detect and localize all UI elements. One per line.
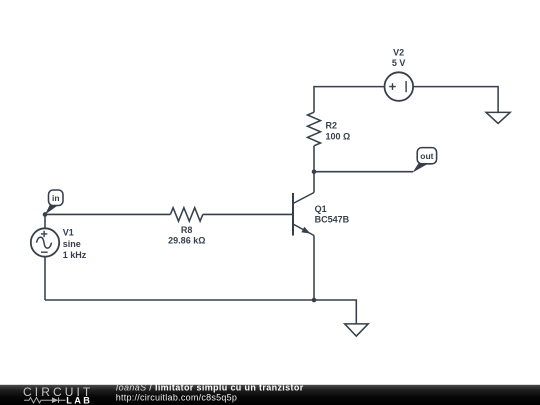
- resistor R8: [170, 208, 202, 221]
- wire rail to ground: [314, 300, 356, 324]
- out label tail: [413, 163, 428, 172]
- logo diode triangle: [52, 397, 59, 403]
- transistor Q1 emitter arrow: [301, 227, 310, 234]
- wire V1 bottom to rail: [44, 257, 46, 300]
- svg-text:http://circuitlab.com/c8s5q5p: http://circuitlab.com/c8s5q5p: [116, 393, 237, 403]
- V1 plus sign: [41, 231, 47, 237]
- svg-text:IoanaS / limitator simplu cu u: IoanaS / limitator simplu cu un tranzist…: [116, 382, 304, 392]
- wire collector up: [313, 172, 315, 193]
- wire collector node up to R2: [313, 146, 315, 172]
- in label box: [49, 190, 64, 206]
- node dot emitter rail: [312, 298, 317, 303]
- V1 sine wave: [37, 237, 52, 248]
- transistor Q1 collector diagonal: [293, 193, 314, 204]
- svg-text:LAB: LAB: [66, 395, 92, 405]
- node dot collector/out: [312, 169, 317, 174]
- V2 minus bar: [405, 81, 407, 92]
- wire collector node to out: [314, 171, 413, 173]
- transistor Q1 base bar: [292, 193, 294, 236]
- wire bottom rail: [45, 299, 314, 301]
- wire R2 top to corner and V2 left: [314, 87, 385, 113]
- wire R8 right to Q1 base: [203, 213, 293, 215]
- wire emitter down: [313, 236, 315, 301]
- voltage source V2 circle: [385, 72, 414, 101]
- V1 minus sign: [41, 251, 48, 253]
- ground bottom: [345, 324, 369, 336]
- wire in-node to R8 left: [45, 213, 170, 215]
- transistor Q1 emitter diagonal: [293, 224, 314, 236]
- wire in-node to V1 top: [44, 214, 46, 228]
- footer background: [0, 385, 540, 405]
- V2 plus sign: [389, 83, 396, 90]
- voltage source V1 circle: [31, 228, 59, 256]
- logo squiggle resistor-diode: [24, 397, 66, 403]
- in label tail: [45, 205, 58, 215]
- wire V2 right to ground corner: [413, 87, 498, 113]
- ground top right: [486, 112, 510, 123]
- node dot in: [43, 212, 48, 217]
- resistor R2: [308, 112, 321, 146]
- out label box: [417, 148, 436, 164]
